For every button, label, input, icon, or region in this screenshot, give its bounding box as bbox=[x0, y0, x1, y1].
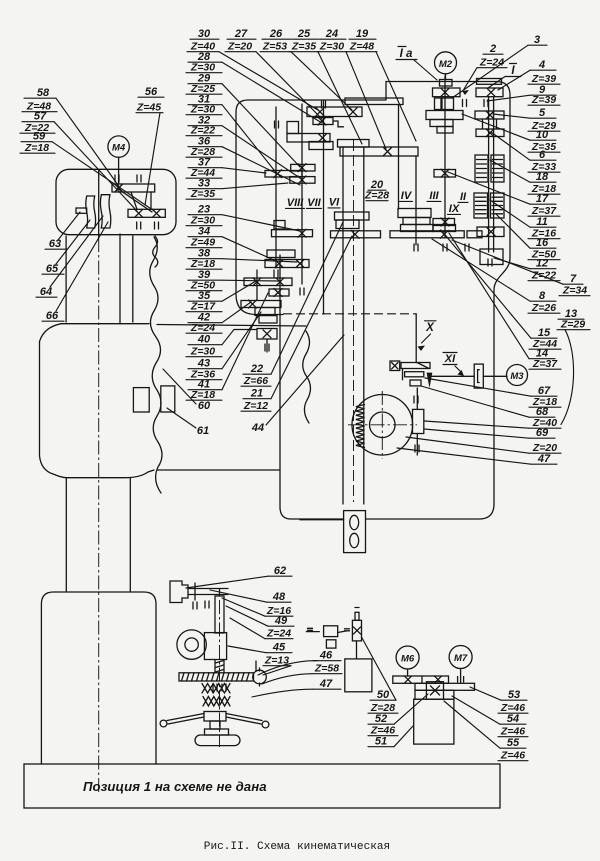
label Z=24 2 bbox=[477, 57, 507, 69]
label Z=46 52 bbox=[368, 725, 398, 737]
motor M6 bbox=[396, 646, 419, 669]
label 54 bbox=[500, 713, 526, 725]
leader 26 bbox=[291, 52, 352, 110]
leader 28 bbox=[222, 62, 322, 123]
pulley left M4 bbox=[86, 196, 96, 228]
wavy cable below housing bbox=[153, 236, 158, 267]
svg-text:63: 63 bbox=[49, 238, 61, 250]
leader 43 bbox=[222, 312, 261, 369]
label shaft IV bbox=[400, 190, 413, 202]
bearing X c42a1 bbox=[253, 278, 261, 286]
svg-text:56: 56 bbox=[145, 86, 158, 98]
label 66 bbox=[42, 310, 64, 322]
label Z=22 32 bbox=[186, 125, 222, 137]
arrow X bbox=[418, 334, 431, 351]
label 68 bbox=[529, 406, 555, 418]
label Z=40 68 bbox=[529, 417, 561, 429]
leader 47 mid bbox=[252, 689, 313, 697]
label 44 bbox=[251, 422, 264, 434]
label Z=24 49 bbox=[265, 628, 293, 640]
leader Z24b bbox=[230, 618, 265, 639]
leader 59 bbox=[52, 142, 155, 212]
leader 46 bbox=[258, 661, 317, 675]
ticks below rack bbox=[213, 684, 226, 691]
hub block VIII top bbox=[287, 122, 299, 134]
svg-text:Z=46: Z=46 bbox=[500, 750, 525, 762]
svg-text:30: 30 bbox=[198, 28, 211, 40]
gear bar sleeve bottom bbox=[331, 231, 381, 238]
leader 19 bbox=[376, 52, 416, 141]
label 56 bbox=[138, 86, 164, 98]
label Z=40 bbox=[187, 41, 219, 53]
feed gearbox M6 bbox=[414, 699, 454, 744]
gear bar IV c bbox=[401, 225, 434, 232]
svg-text:Z=24: Z=24 bbox=[190, 322, 215, 334]
sleeve collar1 bbox=[335, 212, 370, 220]
stack below M6 bbox=[415, 690, 454, 699]
svg-text:VIII: VIII bbox=[287, 197, 304, 209]
svg-text:27: 27 bbox=[234, 28, 248, 40]
svg-text:М4: М4 bbox=[112, 143, 126, 154]
column center line bbox=[98, 238, 100, 792]
label Z=39 9 bbox=[528, 94, 560, 106]
svg-text:60: 60 bbox=[198, 400, 211, 412]
leader 47 right bbox=[397, 448, 531, 464]
svg-text:51: 51 bbox=[375, 736, 387, 748]
bearing X flange right bbox=[384, 148, 392, 156]
leader 40 bbox=[222, 330, 256, 345]
label 11 bbox=[530, 216, 556, 228]
svg-text:Z=12: Z=12 bbox=[243, 400, 268, 412]
sleeve tube bbox=[343, 147, 364, 504]
slider XI bbox=[474, 364, 483, 388]
label XI bbox=[443, 353, 457, 366]
label Z=12 21 bbox=[241, 400, 271, 412]
bearing X M6 b bbox=[435, 676, 442, 683]
leader 30 bbox=[219, 52, 318, 110]
leader 44 bbox=[266, 335, 344, 425]
leader 11 bbox=[490, 200, 530, 227]
label Z=22 57 bbox=[20, 122, 55, 134]
selector shelf item63 bbox=[76, 208, 87, 213]
leader 36 bbox=[222, 147, 300, 185]
label shaft IX bbox=[448, 203, 461, 215]
label 2 bbox=[483, 43, 503, 55]
svg-text:46: 46 bbox=[319, 650, 333, 662]
gear bar IV b bbox=[403, 218, 430, 225]
bearing X shaft II d bbox=[487, 228, 495, 236]
spring lower bbox=[203, 697, 230, 707]
svg-text:25: 25 bbox=[297, 28, 311, 40]
label 20 Z28 bbox=[364, 179, 389, 202]
label Z=50 39 bbox=[186, 280, 222, 292]
leader Ia bbox=[414, 60, 437, 80]
pinion hub bottom bbox=[413, 409, 424, 455]
label 4 bbox=[530, 59, 556, 71]
slider unit 50 bbox=[352, 620, 361, 641]
label Z=18 59 bbox=[20, 142, 55, 154]
motor M3 bbox=[507, 365, 528, 386]
label Z=37 14 bbox=[529, 358, 561, 370]
svg-text:Z=53: Z=53 bbox=[262, 41, 287, 53]
svg-text:Z=30: Z=30 bbox=[190, 346, 215, 358]
bearing X top VI bbox=[349, 108, 357, 116]
svg-text:47: 47 bbox=[537, 453, 551, 465]
rack teeth bbox=[356, 405, 365, 448]
gear bar VII low bbox=[272, 230, 313, 237]
break wavy line right bbox=[303, 331, 311, 423]
bearing X VII mid2 bbox=[298, 176, 306, 184]
shaft line cluster42 bbox=[257, 270, 267, 352]
svg-text:X: X bbox=[425, 322, 435, 334]
leader 22 bbox=[271, 222, 343, 374]
link to slider bbox=[338, 629, 350, 633]
label 8 bbox=[530, 290, 556, 302]
gear bar VIII low2 bbox=[265, 260, 309, 268]
label Z=44 37 bbox=[186, 167, 222, 179]
label 52 bbox=[368, 713, 394, 725]
svg-text:52: 52 bbox=[375, 713, 387, 725]
bearing X bottom wide bbox=[440, 230, 448, 238]
motor M2 bbox=[435, 52, 457, 74]
label X bbox=[425, 321, 437, 334]
stem below 45 bbox=[215, 660, 224, 673]
leader 62 bbox=[186, 576, 268, 588]
label Z=44 15 bbox=[529, 338, 561, 350]
gear bar cluster42 a bbox=[244, 278, 292, 286]
svg-text:59: 59 bbox=[33, 131, 46, 143]
leader 54 bbox=[452, 696, 500, 724]
svg-text:19: 19 bbox=[356, 28, 369, 40]
rack bar bbox=[179, 673, 254, 681]
svg-text:2: 2 bbox=[489, 43, 496, 55]
label Z=34 7 bbox=[559, 285, 590, 297]
leader 6 bbox=[491, 132, 530, 160]
trip box X bbox=[390, 361, 400, 371]
label 51 bbox=[368, 736, 394, 748]
tube bottom plate bbox=[344, 511, 366, 553]
svg-text:4: 4 bbox=[538, 59, 545, 71]
ticks right shaft62 bbox=[205, 589, 220, 609]
bearing X sleeve bottom bbox=[351, 230, 359, 238]
svg-text:10: 10 bbox=[536, 129, 549, 141]
sleeve center dash bbox=[353, 140, 355, 502]
label 26 bbox=[262, 28, 291, 40]
svg-text:Z=35: Z=35 bbox=[291, 41, 316, 53]
label 41 bbox=[188, 379, 222, 391]
svg-text:55: 55 bbox=[507, 737, 520, 749]
label Z=53 bbox=[260, 41, 291, 53]
bearing ticks below M4 bbox=[137, 222, 159, 229]
ball centerline bbox=[259, 668, 261, 686]
svg-text:IV: IV bbox=[401, 190, 413, 202]
label 33 bbox=[188, 178, 222, 190]
clutch box item40 bbox=[257, 329, 277, 340]
label Z=25 29 bbox=[186, 83, 222, 95]
gear bar small VI bbox=[313, 118, 344, 127]
gear bar cluster42 b bbox=[269, 289, 289, 296]
flange right of sleeve bbox=[340, 147, 418, 156]
label Z=28 50 bbox=[368, 702, 398, 714]
bearing X III mid bbox=[441, 169, 449, 177]
leader 1 bbox=[488, 77, 505, 89]
label 48 bbox=[267, 591, 291, 603]
svg-text:62: 62 bbox=[274, 565, 286, 577]
gear bar bottom wide bbox=[390, 231, 464, 238]
label Z=37 17 bbox=[528, 205, 560, 217]
leader 39 bbox=[222, 279, 279, 282]
svg-text:М3: М3 bbox=[510, 371, 524, 382]
label 34 bbox=[188, 226, 222, 238]
label Z=35 10 bbox=[528, 141, 560, 153]
label Z=20 bbox=[225, 41, 256, 53]
bearing X upper M4 bbox=[115, 184, 123, 192]
label 60 bbox=[198, 400, 211, 412]
label Z=30 bbox=[317, 41, 347, 53]
leader 57 bbox=[54, 122, 137, 211]
pinion gear big circle bbox=[352, 395, 413, 456]
label Z=30 23 bbox=[186, 215, 222, 227]
svg-text:5: 5 bbox=[539, 107, 546, 119]
svg-text:II: II bbox=[460, 191, 467, 203]
leader 13 brace bbox=[561, 330, 574, 425]
arrow XI bbox=[455, 366, 464, 376]
label 65 bbox=[42, 263, 64, 275]
svg-text:45: 45 bbox=[272, 642, 286, 654]
weight slot 1 bbox=[350, 515, 359, 529]
label Z=24 42 bbox=[186, 322, 222, 334]
label 39 bbox=[188, 269, 222, 281]
top cap shaft II bbox=[477, 79, 502, 85]
leader 29 bbox=[222, 84, 300, 167]
label 6 bbox=[530, 149, 556, 161]
label 31 bbox=[188, 94, 222, 106]
label Z=46 55 bbox=[498, 750, 528, 762]
label Z=29 5 bbox=[528, 120, 560, 132]
label 1 bbox=[505, 64, 521, 78]
svg-text:66: 66 bbox=[46, 310, 59, 322]
label 21 bbox=[243, 388, 271, 400]
feed block 45 bbox=[204, 633, 226, 660]
leader 14 bbox=[449, 233, 529, 359]
svg-text:Z=18: Z=18 bbox=[24, 142, 49, 154]
label Z=30 31 bbox=[186, 104, 222, 116]
label 3 bbox=[528, 34, 547, 46]
svg-text:Z=58: Z=58 bbox=[314, 663, 339, 675]
svg-text:50: 50 bbox=[377, 689, 390, 701]
bearing X VI a bbox=[319, 134, 327, 142]
clutch box M7 bbox=[426, 682, 443, 700]
leader Z58 bbox=[262, 674, 312, 684]
coupling block item12 bbox=[480, 249, 503, 265]
bearing X VII mid1 bbox=[298, 164, 306, 172]
label 7 bbox=[563, 273, 583, 285]
label 38 bbox=[188, 248, 222, 260]
bearing X item40 bbox=[263, 330, 271, 338]
svg-text:8: 8 bbox=[539, 290, 546, 302]
svg-text:Z=28: Z=28 bbox=[364, 190, 389, 202]
leader 49 bbox=[226, 606, 268, 626]
label 24 bbox=[319, 28, 346, 40]
drive shaft from M4 bbox=[119, 234, 121, 324]
leader 38 bbox=[222, 259, 297, 262]
label shaft VIII bbox=[286, 197, 305, 209]
label Z=30 28 bbox=[186, 62, 222, 74]
leader 61 bbox=[167, 408, 196, 428]
bearing X shaft II top bbox=[487, 88, 495, 96]
arm top edge bbox=[61, 324, 306, 326]
sleeve flange top bbox=[338, 140, 370, 148]
shaft II line bbox=[489, 97, 494, 253]
leader 33 bbox=[222, 183, 288, 189]
label Z=17 35 bbox=[186, 301, 222, 313]
svg-text:Z=37: Z=37 bbox=[532, 358, 558, 370]
gear bar VII mid2 bbox=[290, 177, 315, 184]
svg-text:Z=29: Z=29 bbox=[560, 319, 585, 331]
leader 9 bbox=[487, 95, 530, 101]
svg-text:VII: VII bbox=[307, 197, 321, 209]
gear bar M7 row bbox=[415, 683, 475, 690]
label 63 bbox=[45, 238, 67, 250]
svg-text:17: 17 bbox=[536, 193, 549, 205]
leader 8 bbox=[432, 239, 530, 301]
leader 55 bbox=[444, 701, 500, 748]
leader 24 bbox=[346, 52, 386, 149]
label Z=13 45 bbox=[263, 655, 291, 667]
base plate text bbox=[83, 779, 267, 794]
spreader hub bbox=[204, 712, 226, 722]
block 61 bbox=[161, 386, 175, 412]
svg-text:22: 22 bbox=[250, 363, 263, 375]
bearing X c42c bbox=[249, 300, 257, 308]
gear bar shaft I bbox=[433, 88, 461, 97]
line into tube plate bbox=[300, 519, 344, 521]
leader 64 bbox=[50, 216, 103, 287]
crossed belt M4 bbox=[118, 189, 153, 213]
feed assembly centerline bbox=[219, 600, 221, 747]
bearing X VIII low2b bbox=[296, 260, 304, 268]
gear bar VIII wide bbox=[265, 171, 302, 178]
svg-text:Z=30: Z=30 bbox=[319, 41, 344, 53]
svg-text:57: 57 bbox=[34, 111, 47, 123]
label 32 bbox=[188, 115, 222, 127]
label Z=30 40 bbox=[186, 346, 222, 358]
leader 69 bbox=[424, 421, 529, 438]
label 62 bbox=[268, 565, 292, 577]
trip lever bbox=[401, 363, 430, 386]
svg-text:Z=24: Z=24 bbox=[266, 628, 291, 640]
label 28 bbox=[188, 51, 222, 63]
feed box 51 bbox=[345, 659, 372, 692]
svg-text:Z=18: Z=18 bbox=[190, 389, 215, 401]
svg-text:48: 48 bbox=[272, 591, 286, 603]
label 30 bbox=[190, 28, 219, 40]
leader 68 bbox=[421, 386, 529, 417]
label 53 bbox=[501, 689, 527, 701]
svg-text:61: 61 bbox=[197, 425, 209, 437]
label Z=36 43 bbox=[186, 369, 222, 381]
svg-text:III: III bbox=[429, 190, 439, 202]
gear bar III mid bbox=[434, 170, 456, 178]
leader 52 bbox=[394, 694, 428, 724]
label 15 bbox=[531, 327, 557, 339]
link verticals shaft II bbox=[483, 120, 497, 129]
leader 7 bbox=[452, 240, 563, 284]
label 67 bbox=[531, 385, 557, 397]
shaft I line bbox=[444, 76, 446, 238]
leader 51 bbox=[394, 726, 413, 747]
label 49 bbox=[268, 615, 294, 627]
sleeve collar2 bbox=[336, 220, 359, 229]
leader 4 bbox=[498, 70, 530, 90]
leader 5 bbox=[493, 114, 530, 118]
svg-text:М6: М6 bbox=[401, 654, 415, 665]
coupling marks 46 bbox=[306, 628, 319, 631]
column pedestal bbox=[41, 592, 156, 764]
bearing ticks pinion bbox=[414, 396, 419, 452]
label 25 bbox=[292, 28, 318, 40]
leader 21 bbox=[271, 236, 352, 399]
leader 65 bbox=[56, 220, 90, 264]
spreader arm left bbox=[160, 714, 204, 727]
machine base plate bbox=[24, 764, 500, 808]
slider stem bbox=[355, 608, 359, 621]
vertical shaft 48-49 bbox=[215, 596, 224, 633]
label 58 bbox=[24, 87, 56, 99]
bearing X VIII wide bbox=[274, 170, 282, 178]
leader 58 bbox=[56, 98, 119, 186]
label Z=48 bbox=[347, 41, 377, 53]
svg-text:Z=20: Z=20 bbox=[227, 41, 252, 53]
gear pair VI b bbox=[309, 142, 333, 150]
coupling rect 47 bbox=[326, 640, 336, 648]
label 14 bbox=[529, 348, 555, 360]
svg-text:11: 11 bbox=[536, 216, 547, 228]
svg-text:VI: VI bbox=[329, 197, 340, 209]
pinion center lines bbox=[348, 391, 417, 459]
block on VIII bbox=[274, 221, 285, 230]
label 47 right bbox=[531, 453, 557, 465]
spreader plate bbox=[205, 729, 229, 735]
label Z=28 36 bbox=[186, 146, 222, 158]
label 23 bbox=[188, 204, 222, 216]
pulley right M4 bbox=[100, 195, 110, 228]
bearing ticks VIII bottom bbox=[274, 101, 326, 295]
label 22 bbox=[243, 363, 271, 375]
bearing X shaft I bbox=[441, 88, 449, 96]
motor M4 bbox=[108, 136, 129, 157]
label Z=22 12 bbox=[528, 270, 560, 282]
leader 32 bbox=[222, 126, 300, 178]
label Z=18 41 bbox=[186, 389, 222, 401]
label Z=46 53 bbox=[498, 702, 528, 714]
svg-text:Z=24: Z=24 bbox=[479, 57, 504, 69]
svg-text:64: 64 bbox=[40, 286, 52, 298]
svg-text:IX: IX bbox=[449, 203, 460, 215]
leader 2 bbox=[462, 68, 477, 95]
label 47 mid bbox=[313, 678, 341, 690]
label Z=16 48 bbox=[265, 605, 293, 617]
motor M6 stem bbox=[407, 669, 409, 676]
label 45 bbox=[266, 642, 292, 654]
gear bar lower M4 bbox=[128, 209, 165, 217]
bearing X lower right M4 bbox=[153, 209, 161, 217]
gear bar upper M4 bbox=[112, 184, 155, 192]
bearing X lower left M4 bbox=[135, 209, 143, 217]
foot pad bbox=[195, 735, 240, 746]
shaft VIII line bbox=[275, 107, 277, 268]
leader 35 bbox=[222, 281, 256, 301]
